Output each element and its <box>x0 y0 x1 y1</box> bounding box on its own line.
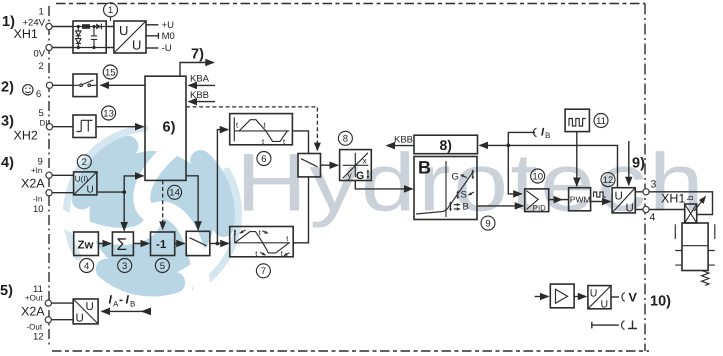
characteristic block B 9 <box>414 157 477 220</box>
arrow PID to PWM <box>549 199 562 201</box>
PID block 10 <box>525 189 549 213</box>
svg-text:G: G <box>356 170 364 182</box>
inductor bead <box>82 24 90 29</box>
wires output stage to terminals <box>635 192 643 210</box>
terminal pin1 <box>46 23 52 29</box>
rail bead to diode <box>90 26 96 28</box>
card border right (dash-dot) <box>644 4 646 352</box>
circle 15 <box>103 65 117 79</box>
wire B block to PID <box>477 205 523 207</box>
svg-text:B: B <box>130 300 135 309</box>
svg-text:13: 13 <box>103 108 114 119</box>
svg-text:3): 3) <box>1 114 14 130</box>
IB feedback node <box>506 144 510 148</box>
enable arrow 9) <box>628 141 630 185</box>
circle 10 <box>531 169 545 183</box>
ground test point <box>592 322 619 329</box>
filter top rail <box>73 26 82 28</box>
Zw block 4 <box>74 232 99 256</box>
svg-text:1: 1 <box>39 7 44 18</box>
smiley OK symbol <box>23 85 33 95</box>
power supply U/U block <box>114 21 146 53</box>
KBB output arrow <box>387 145 415 147</box>
svg-text:3: 3 <box>651 179 657 191</box>
svg-text:B: B <box>418 158 431 178</box>
svg-text:9): 9) <box>632 156 645 172</box>
summer block 3 <box>112 232 133 256</box>
socket symbol ground <box>622 321 625 330</box>
circle 13 <box>102 106 116 120</box>
svg-text:5: 5 <box>160 261 165 272</box>
terminal pin2 <box>46 44 52 50</box>
test converter U/U block <box>588 286 611 311</box>
svg-text:12: 12 <box>33 332 44 343</box>
arrow Zw to summer <box>98 243 111 245</box>
svg-text:XH2: XH2 <box>14 129 38 143</box>
arrow PWM to output stage <box>591 201 611 203</box>
socket symbol V <box>622 293 625 302</box>
svg-text:4: 4 <box>84 261 89 272</box>
svg-text:U(I): U(I) <box>75 175 89 184</box>
wire block6 to polarity switch <box>186 176 198 230</box>
KBB stub arrow <box>189 101 216 103</box>
terminal pin11 <box>45 300 51 306</box>
svg-text:6: 6 <box>36 89 41 100</box>
test amplifier input arrow <box>535 296 549 298</box>
terminal pin5 <box>46 124 52 130</box>
inverter block 5 <box>151 232 175 256</box>
output stage U/U block <box>612 188 635 215</box>
wire switch to node <box>210 243 218 245</box>
svg-text:B: B <box>545 131 550 140</box>
oscillator block 11 <box>565 109 589 131</box>
solenoid coil <box>685 197 706 223</box>
svg-text:Σ: Σ <box>117 235 128 254</box>
svg-text:Hydrotech: Hydrotech <box>236 138 706 229</box>
valve body <box>675 223 715 271</box>
IB tap symbol <box>534 128 537 137</box>
svg-text:+Out: +Out <box>25 294 43 303</box>
wire pin6 to relay <box>53 84 73 86</box>
svg-text:14: 14 <box>169 188 180 199</box>
relay contact block 15 <box>73 74 97 97</box>
+U stub <box>146 24 158 26</box>
svg-text:-U: -U <box>162 43 172 54</box>
wire node down to PID <box>508 145 521 194</box>
arrow node to ramp 7 <box>217 243 228 245</box>
limiter block 8) <box>414 135 478 154</box>
converter output wire to junction <box>97 191 124 193</box>
wire gain to characteristic block <box>355 181 412 189</box>
svg-text:B: B <box>463 202 469 213</box>
svg-text:PID: PID <box>533 204 546 213</box>
circle 7 <box>256 264 270 278</box>
svg-text:7: 7 <box>261 266 266 277</box>
svg-text:q: q <box>687 196 697 201</box>
test amplifier block <box>550 284 574 308</box>
svg-text:8): 8) <box>440 137 452 153</box>
terminal pin12 <box>45 317 51 323</box>
circle 11 <box>594 114 608 128</box>
svg-text:U: U <box>132 38 141 53</box>
svg-text:G: G <box>452 172 459 183</box>
svg-text:M0: M0 <box>162 31 175 42</box>
svg-text:2): 2) <box>1 80 14 96</box>
diode D1 <box>96 24 101 30</box>
capacitor branch <box>93 27 95 48</box>
arrow selector to gain block 8 <box>321 164 339 166</box>
arrow amp to converter <box>574 296 586 298</box>
-U stub <box>146 47 158 49</box>
svg-text:10): 10) <box>650 294 671 310</box>
watermark logo swirl <box>48 125 239 307</box>
circle 3 <box>118 259 132 273</box>
svg-text:KBB: KBB <box>190 90 209 101</box>
valve spring <box>702 271 710 286</box>
ramp generator block 7 <box>230 227 294 259</box>
svg-text:4): 4) <box>1 155 14 171</box>
svg-text:6: 6 <box>261 154 266 165</box>
KBA stub arrow <box>189 84 216 86</box>
ramp6 output wire to selector <box>292 131 308 154</box>
IA-IB arrow <box>102 310 149 312</box>
ground symbol <box>628 321 637 329</box>
card border bottom (dashed) <box>52 350 649 352</box>
svg-text:U: U <box>87 185 94 196</box>
svg-text:-Out: -Out <box>27 323 43 332</box>
PWM block 12 <box>569 188 591 211</box>
svg-text:U: U <box>590 288 598 300</box>
wire node to limiter 8) <box>480 144 509 146</box>
svg-text:0V: 0V <box>34 49 46 60</box>
output 7) arrow <box>180 63 214 77</box>
wire to test socket V <box>611 296 619 298</box>
svg-text:2: 2 <box>82 157 87 168</box>
wire node up to ramp 6 <box>217 130 228 244</box>
svg-text:U: U <box>76 313 84 325</box>
svg-text:7): 7) <box>191 47 204 63</box>
wire pin5 to comparator <box>53 126 73 128</box>
svg-text:1: 1 <box>108 5 113 16</box>
wire pin3 to solenoid <box>649 192 713 215</box>
svg-text:KBB: KBB <box>394 135 413 146</box>
terminal pin10 <box>46 190 52 196</box>
terminal pin9 <box>46 172 52 178</box>
wire junction down into summer <box>123 192 125 230</box>
svg-text:X2A: X2A <box>21 177 45 191</box>
svg-text:+U: +U <box>162 20 175 31</box>
svg-text:KBA: KBA <box>190 74 210 85</box>
wire node right to output stage <box>508 145 617 187</box>
svg-text:U: U <box>626 203 634 215</box>
comparator block 13 (hysteresis) <box>73 115 96 138</box>
wires pins 11/12 to converter <box>51 303 73 320</box>
node junction input <box>122 190 126 194</box>
svg-text:12: 12 <box>603 175 614 186</box>
ramp generator block 6 <box>230 114 293 146</box>
svg-text:U: U <box>615 191 623 203</box>
wire junction up into block 6 <box>124 176 143 192</box>
svg-text:-: - <box>119 293 123 307</box>
M0 stub <box>146 33 158 39</box>
circle 12 <box>601 173 615 187</box>
node ramp input <box>216 242 220 246</box>
svg-text:-1: -1 <box>156 239 167 251</box>
input converter U(I)/U block 2 <box>74 172 97 196</box>
svg-text:PWM: PWM <box>570 194 591 204</box>
arrow summer to inverter <box>133 243 149 245</box>
IB wire to node <box>508 132 535 145</box>
svg-text:3: 3 <box>122 261 127 272</box>
wire oscillator to PWM <box>576 132 578 186</box>
svg-text:Zw: Zw <box>78 240 94 252</box>
ramp selector switch block <box>298 154 321 177</box>
comparator output arrow to block 6 <box>96 126 144 128</box>
svg-text:15: 15 <box>105 67 116 78</box>
circle 4 <box>80 259 94 273</box>
svg-text:11: 11 <box>596 116 606 127</box>
svg-text:XH1: XH1 <box>661 192 685 206</box>
circle 9 <box>481 216 495 230</box>
arrow inverter to polarity switch <box>175 243 185 245</box>
wires pins 9/10 to converter 2 <box>52 175 74 192</box>
circle 5 <box>155 259 169 273</box>
ramp7 output wire to selector <box>293 177 308 243</box>
terminal pin6 <box>46 82 52 88</box>
svg-text:6): 6) <box>163 120 176 136</box>
svg-text:XH1: XH1 <box>14 27 38 41</box>
svg-text:9: 9 <box>485 219 490 230</box>
pwm output wave glyph <box>594 192 606 197</box>
circle 8 <box>338 131 352 145</box>
svg-text:8: 8 <box>343 134 348 145</box>
junction dots filter <box>77 25 80 28</box>
svg-text:5): 5) <box>0 283 13 299</box>
svg-text:-In: -In <box>33 195 42 204</box>
wire pin1 to filter <box>52 26 73 28</box>
svg-text:U: U <box>86 301 94 313</box>
wire pin2 to filter <box>52 47 73 49</box>
svg-text:V: V <box>629 291 638 305</box>
svg-text:+In: +In <box>31 166 42 175</box>
output converter block 5 <box>73 299 98 325</box>
terminal pin3 <box>643 189 649 195</box>
svg-text:U: U <box>601 299 609 311</box>
svg-text:2: 2 <box>39 61 44 72</box>
gain block 8 <box>340 150 372 182</box>
wires filter to PSU <box>106 27 114 48</box>
polarity switch block <box>186 231 210 255</box>
circle 14 <box>168 185 182 199</box>
svg-text:10: 10 <box>532 171 543 182</box>
filter block <box>73 21 106 53</box>
dashed control to ramp selector <box>186 107 317 151</box>
svg-text:S: S <box>461 190 467 201</box>
wire pin4 to solenoid <box>649 209 685 211</box>
svg-text:10: 10 <box>33 204 44 215</box>
terminal pin4 <box>643 206 649 212</box>
svg-text:4: 4 <box>650 212 656 224</box>
dashed output to inverter <box>162 180 164 229</box>
filter bottom rail <box>73 47 106 49</box>
card border top (dashed) <box>56 3 645 5</box>
logic block 6) <box>145 76 186 180</box>
svg-text:X2A: X2A <box>21 305 45 319</box>
zener branch <box>77 27 79 48</box>
circle 2 <box>77 155 91 169</box>
card border left (dash-dot) <box>48 6 50 348</box>
relay control wire from block 6 <box>101 84 146 86</box>
circle 1 <box>104 3 118 21</box>
circle 6 <box>257 152 271 166</box>
svg-text:5: 5 <box>39 108 44 119</box>
svg-text:U: U <box>119 23 128 38</box>
